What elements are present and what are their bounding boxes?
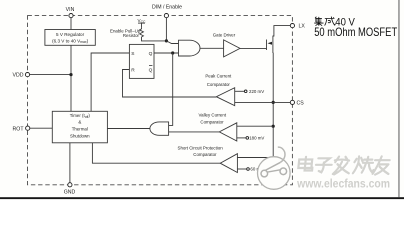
- junction dot valley comparator tap: [272, 125, 275, 128]
- wire short comparator output to timer bottom: [92, 143, 220, 163]
- ground pin GND: [68, 183, 72, 187]
- svg-text:Comparator: Comparator: [193, 152, 217, 157]
- svg-text:CS: CS: [297, 101, 305, 107]
- terminal 220mV reference: [244, 90, 247, 93]
- svg-text:Q: Q: [149, 67, 153, 73]
- pin VDD: [25, 73, 29, 77]
- watermark logo circle: [258, 147, 291, 189]
- watermark logo hook tail: [278, 147, 285, 162]
- watermark logo small circle right: [280, 168, 287, 175]
- svg-text:S: S: [131, 51, 134, 57]
- transistor Q1 channel bar: [272, 36, 274, 53]
- svg-text:Peak Current: Peak Current: [205, 74, 232, 79]
- watermark logo needle stem: [265, 162, 280, 170]
- svg-text:R: R: [131, 67, 135, 73]
- overbar for Qbar: [149, 65, 152, 67]
- wire AND gate to gate driver: [200, 47, 224, 49]
- svg-text:Valley Current: Valley Current: [199, 112, 227, 117]
- svg-text:Comparator: Comparator: [207, 82, 231, 87]
- pin ROT: [26, 126, 30, 130]
- svg-text:5 V Regulator: 5 V Regulator: [56, 32, 85, 37]
- wire node EN to pull-up resistor: [142, 37, 166, 41]
- svg-text:(6.3 V to 40 Vmax): (6.3 V to 40 Vmax): [52, 38, 89, 44]
- wire latch Q output to AND gate bottom input: [154, 52, 179, 54]
- SR latch U2 box: [129, 44, 154, 78]
- annotation glyph cheng (integrated): [325, 17, 336, 26]
- junction dot VDD rail: [69, 73, 72, 76]
- wire CS line to valley comparator input: [237, 125, 273, 127]
- svg-text:180 mV: 180 mV: [249, 136, 264, 141]
- terminal 60mV reference: [247, 168, 250, 171]
- svg-text:VCC: VCC: [138, 18, 147, 24]
- pin CS: [290, 100, 294, 104]
- scan artifact right vertical line: [398, 0, 399, 197]
- wire MOSFET drain to LX pin: [273, 26, 290, 36]
- svg-text:VDD: VDD: [13, 73, 24, 79]
- wire valley comparator ref input: [237, 137, 246, 139]
- watermark chinese glyphs embossed: [298, 156, 392, 175]
- AND gate U7 mirrored min off-time: [150, 122, 169, 135]
- wire node EN to AND gate top input: [166, 41, 178, 44]
- svg-text:Comparator: Comparator: [200, 120, 224, 125]
- timer and thermal shutdown U9 box: [52, 111, 107, 143]
- wire VIN pin to 5V regulator: [70, 18, 72, 30]
- resistor R1 enable pull-up zigzag: [140, 28, 144, 37]
- svg-text:&: &: [78, 120, 81, 125]
- svg-text:Timer (toff): Timer (toff): [70, 113, 91, 119]
- terminal 180mV reference: [246, 137, 249, 140]
- comparator U8 short circuit protection triangle: [220, 154, 237, 173]
- wire VDD pin to rail: [30, 74, 71, 76]
- transistor Q1 body arrow: [268, 42, 273, 45]
- svg-text:LX: LX: [299, 24, 306, 30]
- wire min off AND gate output to timer: [107, 128, 149, 130]
- VCC supply terminal bar: [138, 22, 145, 24]
- junction dot on Q output: [171, 51, 174, 54]
- pin DIM/Enable: [164, 14, 168, 18]
- watermark logo small circle left: [261, 170, 268, 177]
- IC boundary dashed box: [28, 16, 293, 185]
- svg-text:Gate Driver: Gate Driver: [213, 33, 236, 38]
- pin LX: [290, 24, 294, 28]
- wire peak comparator output to latch R input: [123, 70, 217, 98]
- junction dot node EN: [165, 39, 168, 42]
- wire timer to GND pin: [69, 143, 71, 183]
- scan artifact bottom black bar: [0, 197, 404, 199]
- watermark logo connector line: [268, 170, 281, 172]
- transistor Q1 MOSFET gate bar: [266, 40, 268, 51]
- 5V regulator U1 box: [45, 30, 95, 46]
- wire ROT pin to timer: [30, 127, 53, 129]
- AND gate U3: [179, 40, 201, 56]
- svg-text:220 mV: 220 mV: [249, 89, 264, 94]
- wire short comparator ref input: [237, 168, 246, 170]
- junction dot CS node: [272, 101, 275, 104]
- svg-text:50 mOhm MOSFET: 50 mOhm MOSFET: [314, 25, 397, 39]
- wire Q branch down to min off-time AND gate: [169, 53, 173, 125]
- wire CS node to peak comparator input: [235, 101, 274, 103]
- wire CS line to short circuit comparator input: [237, 157, 273, 159]
- wire MOSFET source sense line down to short comparator: [272, 53, 274, 158]
- svg-text:DIM / Enable: DIM / Enable: [152, 5, 182, 11]
- svg-text:VIN: VIN: [66, 7, 75, 13]
- svg-text:Resistor: Resistor: [123, 33, 140, 38]
- comparator U6 valley current triangle: [219, 123, 237, 141]
- wire peak comparator ref input: [235, 90, 245, 92]
- wire DIM/Enable pin down to node EN: [165, 18, 167, 41]
- svg-text:Short Circuit Protection: Short Circuit Protection: [178, 146, 224, 151]
- wire timer output to latch S input: [91, 53, 129, 111]
- annotation glyph ji (integrated): [314, 17, 323, 26]
- svg-text:Shutdown: Shutdown: [70, 134, 90, 139]
- wire valley comparator output to min off AND gate: [169, 131, 220, 133]
- svg-text:Q: Q: [149, 51, 153, 57]
- wire gate driver to MOSFET gate: [240, 47, 267, 49]
- pin VIN: [69, 14, 73, 18]
- svg-text:ROT: ROT: [13, 126, 25, 132]
- wire CS node to CS pin: [273, 101, 290, 103]
- svg-text:GND: GND: [64, 189, 76, 195]
- wire resistor to VCC terminal: [141, 23, 143, 28]
- comparator U5 peak current triangle: [216, 88, 234, 106]
- wire regulator output rail down to timer: [70, 45, 72, 111]
- svg-text:www.elecfans.com: www.elecfans.com: [296, 179, 390, 191]
- svg-text:Thermal: Thermal: [72, 126, 88, 131]
- gate driver U4 triangle: [224, 40, 240, 57]
